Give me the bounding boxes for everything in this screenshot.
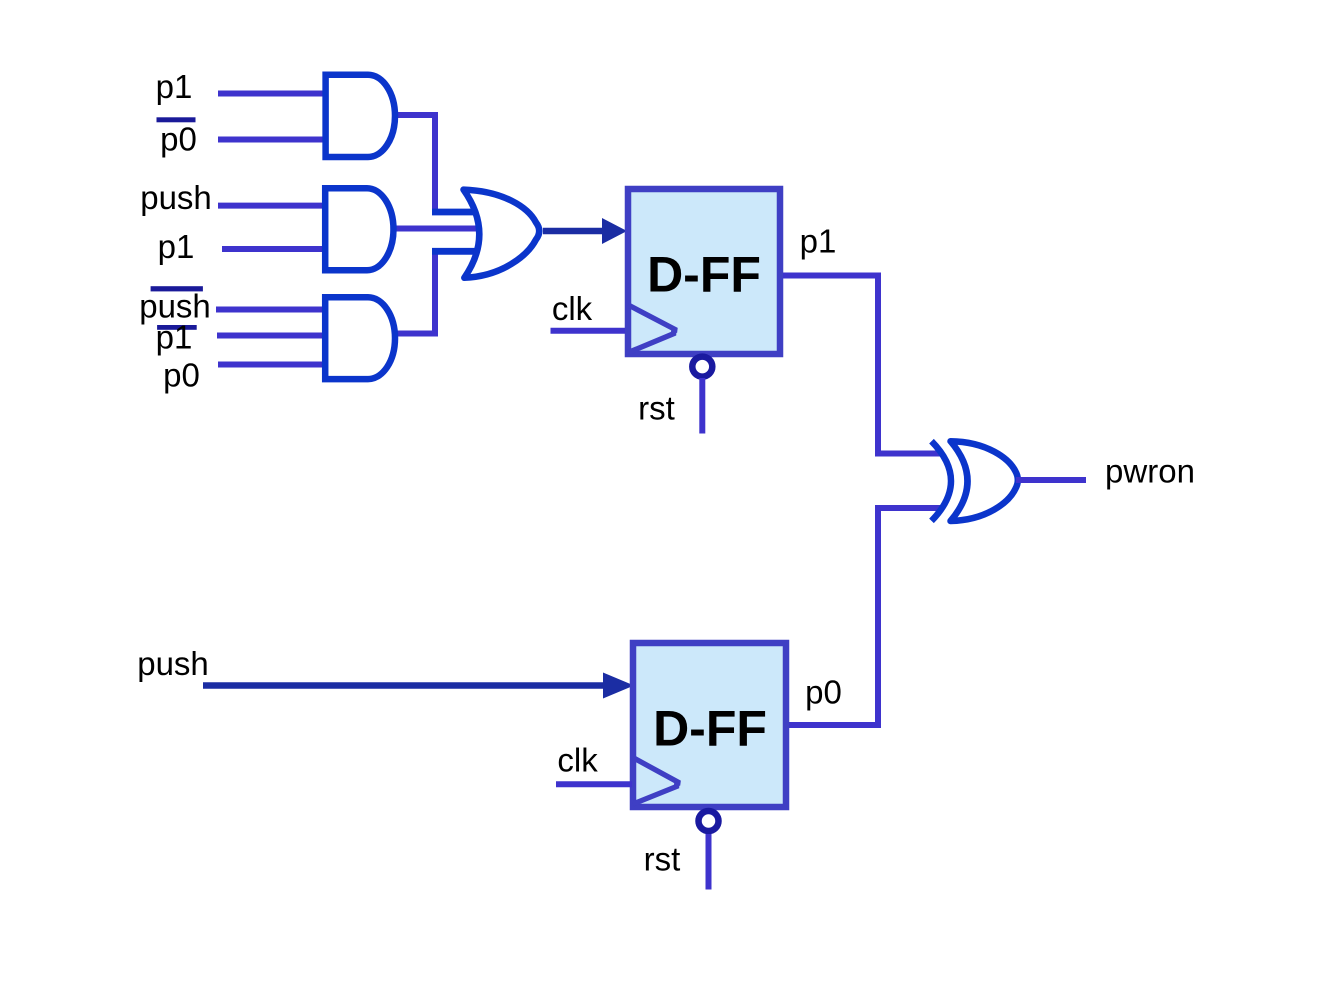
wire p1 to AND2 xyxy=(222,246,330,252)
svg-text:D-FF: D-FF xyxy=(647,247,761,303)
wire U2 output p0 to XOR bottom input xyxy=(789,508,943,725)
svg-text:pwron: pwron xyxy=(1105,453,1195,490)
arrow push to D-FF2 xyxy=(203,682,605,689)
AND gate 3 xyxy=(325,297,395,379)
overline bar over p1 xyxy=(157,325,197,330)
D-FF U2 box xyxy=(633,643,786,807)
wire AND2 output to OR middle input xyxy=(396,226,482,232)
reset bubble U1 xyxy=(692,357,712,377)
wire rst to U2 xyxy=(706,834,712,890)
overline bar over push xyxy=(151,286,203,291)
wire push to AND3 xyxy=(216,307,330,313)
wire XOR output xyxy=(1016,477,1086,483)
svg-text:p1: p1 xyxy=(800,223,837,260)
wire p0 to AND1 xyxy=(218,137,330,143)
wire AND1 output to OR top input xyxy=(397,115,446,212)
wire clk to U1 xyxy=(551,328,626,334)
svg-text:clk: clk xyxy=(557,742,598,779)
wire OR top input stub (blue) xyxy=(432,209,477,216)
wire push to AND2 xyxy=(218,203,330,209)
wire p0 to AND3 xyxy=(218,362,330,368)
wire AND3 output to OR bottom input xyxy=(397,251,446,333)
wire p1 to AND1 xyxy=(218,91,330,97)
wire p1 to AND3 xyxy=(217,333,330,339)
svg-text:rst: rst xyxy=(638,390,675,427)
AND gate 2 xyxy=(325,188,393,270)
wire rst to U1 xyxy=(699,378,705,434)
svg-text:p0: p0 xyxy=(805,674,842,711)
XOR gate input arc xyxy=(932,441,952,521)
AND gate 1 xyxy=(326,75,395,157)
svg-text:p0: p0 xyxy=(163,357,200,394)
wire OR bottom input stub (blue) xyxy=(432,248,478,255)
svg-text:rst: rst xyxy=(644,841,681,878)
clock chevron U1 xyxy=(628,305,677,353)
svg-text:push: push xyxy=(140,179,212,216)
XOR gate body xyxy=(951,441,1018,521)
wire U1 output p1 to XOR top input xyxy=(783,276,943,454)
svg-text:D-FF: D-FF xyxy=(653,701,767,757)
svg-text:p1: p1 xyxy=(158,228,195,265)
reset bubble U2 xyxy=(699,811,719,831)
svg-text:p1: p1 xyxy=(156,68,193,105)
wire clk to U2 xyxy=(556,781,632,787)
svg-text:clk: clk xyxy=(552,290,593,327)
svg-text:p0: p0 xyxy=(160,121,197,158)
svg-text:p1: p1 xyxy=(156,319,193,356)
OR gate xyxy=(464,190,540,278)
arrow OR output to D-FF1 xyxy=(543,228,603,235)
svg-text:push: push xyxy=(137,645,209,682)
D-FF U1 box xyxy=(628,189,780,354)
clock chevron U2 xyxy=(633,758,680,804)
overline bar over p0 xyxy=(157,117,196,122)
